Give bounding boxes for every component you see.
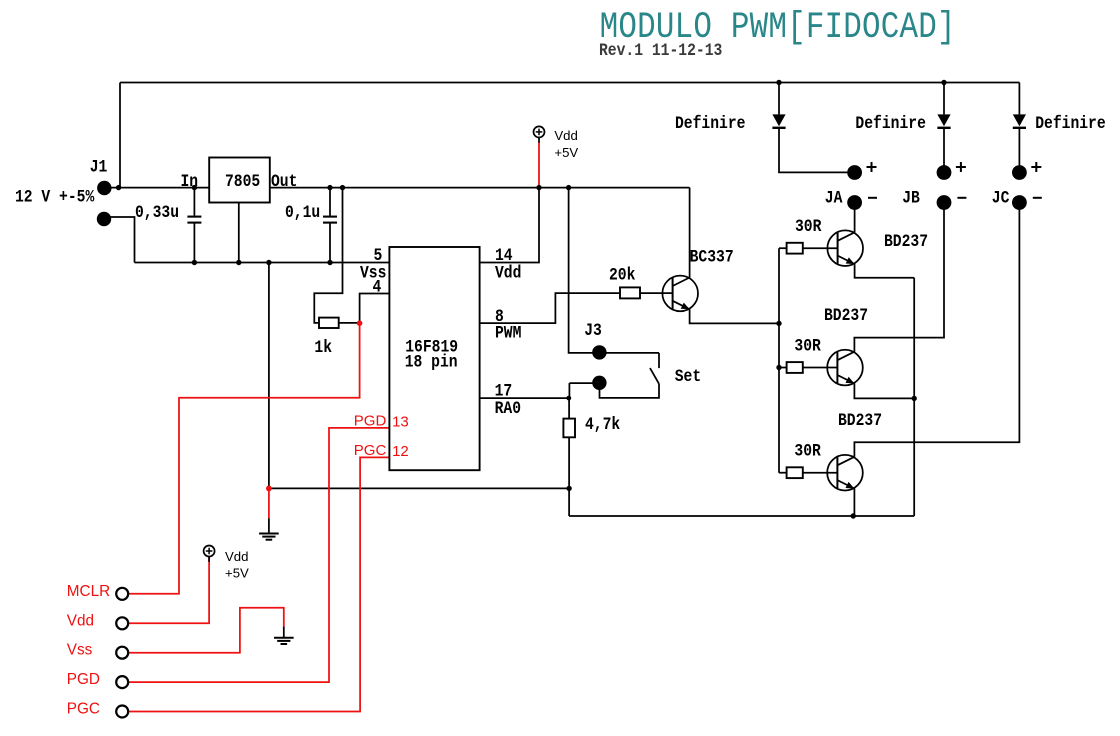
svg-text:Vss: Vss [67, 642, 93, 659]
capacitor C1 0,33u plates [187, 216, 201, 218]
wire power ground vertical x=269 [268, 263, 270, 489]
svg-text:BD237: BD237 [838, 410, 882, 431]
wire red Vss terminal to ground [128, 608, 284, 653]
svg-text:RA0: RA0 [495, 398, 521, 419]
wire ground rail to IC pin 5 [135, 262, 390, 264]
connector JC plus dot [1012, 165, 1027, 180]
wire main +12V/input rail [104, 187, 689, 189]
wire red PGD pin13 to terminal [128, 428, 389, 682]
wire left vertical from J1 to top rail [119, 83, 121, 188]
wire R3 left lead [779, 247, 787, 249]
terminal Vdd circle [116, 617, 128, 629]
wire diode D1 cathode to JA plus [779, 127, 855, 172]
connector J3 pin1 dot [592, 345, 606, 359]
svg-text:JB: JB [902, 187, 920, 208]
wire +5V rail to R1 (1k) zigzag [314, 188, 342, 323]
svg-text:12 V +-5%: 12 V +-5% [15, 186, 94, 207]
JB minus mark [957, 197, 966, 199]
wire switch SW1 blade [650, 368, 659, 384]
connector J1 pin2 dot [97, 212, 111, 226]
node pin17 junction [566, 396, 571, 401]
wire bottom emitter return rail [569, 515, 914, 517]
svg-text:Definire: Definire [675, 113, 746, 134]
svg-text:0,33u: 0,33u [135, 202, 179, 223]
wire base bus vertical x=779 [778, 248, 780, 473]
svg-text:7805: 7805 [225, 171, 260, 192]
node red ground junction [266, 486, 272, 492]
transistor Q4 BD237 [827, 455, 863, 491]
wire emitter chain vertical x=914 [913, 278, 915, 516]
node Q4 emitter rail junction [851, 513, 856, 518]
svg-text:Vdd: Vdd [554, 128, 577, 143]
svg-text:BD237: BD237 [884, 231, 928, 252]
wire Q3 emitter lead [854, 384, 914, 399]
svg-text:In: In [181, 171, 199, 192]
wire R4 right lead to Q3 base [803, 367, 838, 369]
node +5V rail junction [536, 185, 541, 190]
svg-text:JC: JC [992, 187, 1010, 208]
node R1 feed junction [340, 185, 345, 190]
svg-text:30R: 30R [795, 216, 822, 237]
transistor Q2 BD237 [827, 230, 863, 266]
terminal PGD circle [116, 676, 128, 688]
JA minus mark [868, 197, 877, 199]
resistor R3 30R [787, 243, 803, 254]
resistor R6 4,7k [563, 419, 575, 438]
wire top +12V rail [120, 82, 1019, 84]
node Q3 emitter junction [912, 396, 917, 401]
svg-text:18 pin: 18 pin [405, 351, 458, 372]
wire red +5V symbol to rail [538, 142, 540, 187]
node C2 ground junction [327, 260, 332, 265]
wire Q2 collector to JA minus [854, 203, 856, 233]
wire Q4 emitter to bottom rail [853, 489, 855, 516]
wire Q2 emitter lead [855, 264, 915, 278]
wire pin4 lead [360, 294, 390, 323]
resistor R1 1k [319, 318, 339, 328]
wire J3 bottom drop to pin17 line [568, 383, 570, 398]
power +5V symbol bottom [204, 546, 215, 557]
wire ground rail y=488 [269, 487, 569, 489]
svg-text:PGD: PGD [354, 412, 387, 429]
diode D2 [937, 114, 950, 126]
node C1 ground junction [192, 260, 197, 265]
wire R6 bottom lead [568, 437, 570, 516]
wire pin14 Vdd lead [480, 188, 539, 263]
svg-text:Vdd: Vdd [495, 262, 521, 283]
svg-text:Vdd: Vdd [225, 549, 248, 564]
resistor R2 20k [620, 287, 640, 298]
node Q1 emitter bus junction [776, 321, 781, 326]
wire R4 left lead [779, 367, 787, 369]
svg-text:Out: Out [271, 171, 297, 192]
terminal MCLR circle [116, 588, 128, 600]
svg-text:JA: JA [825, 187, 843, 208]
wire C2 bottom lead [329, 223, 331, 262]
connector JB plus dot [937, 165, 952, 180]
wire +5V rail to J3 top [569, 188, 659, 353]
svg-text:30R: 30R [794, 440, 821, 461]
node D2 top rail junction [941, 80, 946, 85]
wire Q1 emitter lead [690, 309, 779, 323]
svg-text:Definire: Definire [1035, 113, 1106, 134]
wire R2 right lead to Q1 base [640, 292, 673, 294]
terminal PGC circle [116, 706, 128, 718]
connector JB minus dot [937, 195, 952, 210]
wire red MCLR from R1 node to terminal [128, 323, 360, 594]
svg-text:Definire: Definire [855, 113, 926, 134]
node ground drop junction [266, 260, 271, 265]
transistor Q1 BC337 [662, 276, 698, 312]
node D1 top rail junction [776, 80, 781, 85]
diode D1 [772, 114, 785, 126]
svg-text:PGC: PGC [354, 442, 387, 459]
regulator U2 7805 box [209, 158, 270, 203]
svg-text:PWM: PWM [495, 322, 522, 343]
svg-text:13: 13 [392, 413, 409, 430]
svg-text:12: 12 [392, 443, 409, 460]
diode D3 [1013, 114, 1026, 126]
JC plus mark [1031, 166, 1041, 168]
JA plus mark [867, 166, 877, 168]
wire diode D3 anode lead [1018, 83, 1020, 115]
connector JA plus dot [847, 165, 862, 180]
svg-text:BD237: BD237 [824, 305, 868, 326]
node C1 top junction [192, 185, 197, 190]
wire J3 bottom to node RA0 [569, 382, 599, 384]
wire Q4 collector to JC minus [854, 203, 1019, 457]
node 7805 ground junction [236, 260, 241, 265]
node R4 bus junction [776, 365, 781, 370]
svg-text:0,1u: 0,1u [285, 202, 320, 223]
wire R5 right lead to Q4 base [803, 472, 838, 474]
wire Q3 collector to JB minus [854, 203, 944, 352]
wire 7805 ground lead [238, 203, 240, 263]
JB plus mark [956, 166, 966, 168]
capacitor C2 0,1u plates [323, 216, 337, 218]
ground ICSP symbol [274, 637, 294, 639]
wire pin8 PWM lead to R2 (20k) [480, 293, 620, 323]
svg-text:Vdd: Vdd [67, 612, 94, 629]
wire diode D1 anode lead [778, 83, 780, 115]
wire switch SW1 top contact [658, 353, 660, 368]
node C2 top junction [327, 185, 332, 190]
svg-text:4: 4 [373, 276, 382, 297]
svg-text:20k: 20k [609, 264, 636, 285]
wire red PGC pin12 to terminal [128, 457, 389, 711]
transistor Q3 BD237 [827, 350, 863, 386]
JC minus mark [1033, 197, 1042, 199]
svg-text:Rev.1 11-12-13: Rev.1 11-12-13 [599, 40, 722, 61]
node MCLR red junction [357, 320, 363, 326]
connector JC minus dot [1012, 195, 1027, 210]
svg-text:1k: 1k [314, 336, 332, 357]
wire diode D2 anode lead [943, 83, 945, 115]
wire Q1 collector to main rail [689, 188, 691, 278]
svg-text:+5V: +5V [225, 566, 249, 581]
svg-text:PGC: PGC [67, 701, 100, 718]
wire red ground stub below node [268, 488, 270, 518]
svg-text:J1: J1 [90, 156, 108, 177]
svg-text:MCLR: MCLR [67, 583, 110, 600]
wire C1 bottom lead [193, 223, 195, 262]
connector J3 pin2 dot [592, 376, 606, 390]
wire R6 top lead [568, 398, 570, 419]
connector JA minus dot [847, 195, 862, 210]
wire R5 left lead [779, 472, 787, 474]
wire red Vdd terminal to +5V symbol [128, 556, 209, 623]
connector J1 pin1 dot [97, 181, 111, 195]
wire diode D2 cathode to JB plus [943, 127, 945, 172]
svg-text:PGD: PGD [67, 671, 100, 688]
node R6 ground junction [566, 486, 571, 491]
wire diode D3 cathode to JC plus [1018, 127, 1020, 172]
wire C1 top lead [193, 188, 195, 216]
ground main symbol [259, 533, 279, 535]
terminal Vss circle [116, 647, 128, 659]
svg-text:30R: 30R [794, 335, 821, 356]
node J3 feed junction [566, 185, 571, 190]
wire switch SW1 bottom contact to J3 bottom [600, 383, 660, 398]
wire R1 right lead to node MCLR [339, 322, 360, 324]
svg-text:J3: J3 [584, 320, 602, 341]
svg-text:BC337: BC337 [690, 246, 734, 267]
svg-text:+5V: +5V [554, 145, 578, 160]
svg-text:Set: Set [675, 366, 701, 387]
wire R3 right lead to Q2 base [803, 247, 838, 249]
resistor R5 30R [787, 467, 803, 478]
IC U1 16F819 box [389, 247, 479, 470]
wire J1 lower lead [104, 217, 135, 263]
svg-text:4,7k: 4,7k [585, 413, 620, 434]
resistor R4 30R [787, 362, 803, 373]
wire C2 top lead [329, 188, 331, 216]
node J1 to top rail junction [116, 185, 121, 190]
power +5V symbol top [534, 126, 545, 137]
wire pin17 RA0 lead [480, 397, 569, 399]
